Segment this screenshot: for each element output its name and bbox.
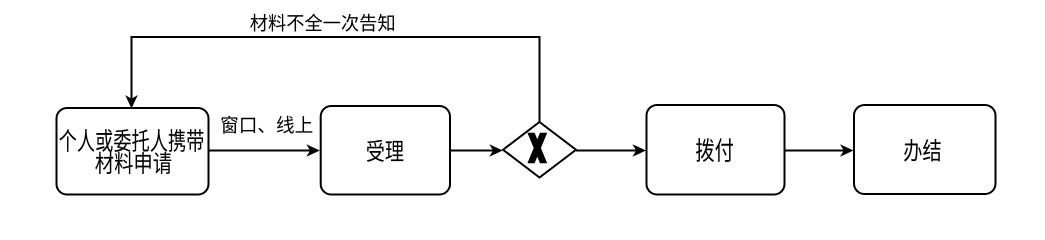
wire: box2 to gateway (450, 150, 500, 152)
wire: box3 to box4 (785, 150, 852, 152)
arrowhead: into box2 (306, 144, 320, 157)
arrowhead: feedback arrow into start box top (125, 95, 138, 109)
node: start box 个人或委托人携带材料申请 (57, 108, 209, 195)
arrowhead: into gateway (489, 144, 503, 157)
label: X (gateway mark) (527, 133, 547, 163)
label: 窗口、线上 (on wire box1-box2) (222, 116, 313, 134)
label: 受理 (367, 140, 404, 162)
arrowhead: into box4 (840, 144, 854, 157)
wire: gateway to box3 (576, 150, 643, 152)
label: 办结 (904, 139, 941, 162)
label: 材料申请 (box1 line2) (95, 152, 171, 174)
node: box 办结 (854, 105, 996, 194)
label: 拨付 (696, 138, 733, 162)
label: 材料不全一次告知 (on feedback wire) (250, 14, 394, 32)
wire: box1 to box2 (209, 150, 318, 152)
node: box 受理 (321, 106, 450, 195)
node: box 拨付 (647, 105, 785, 195)
node: decision gateway X (503, 122, 576, 178)
arrowhead: into box3 (632, 144, 646, 157)
wire: feedback path from gateway top to start box (材料不全一次告知 loop) (132, 37, 540, 122)
label: 个人或委托人携带 (box1 line1) (59, 129, 203, 152)
